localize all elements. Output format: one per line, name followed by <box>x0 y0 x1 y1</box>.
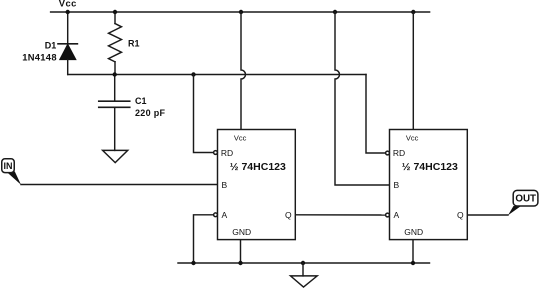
ground rail bottom <box>178 262 430 264</box>
svg-text:Q: Q <box>285 210 292 220</box>
ground (below C1) <box>103 150 128 162</box>
U2 A bubble <box>386 213 390 217</box>
wire U2 GND pin <box>412 240 414 263</box>
svg-text:A: A <box>394 210 400 220</box>
junction RD1 branch node <box>191 72 195 76</box>
input tag IN <box>2 159 21 185</box>
resistor R1 <box>109 12 122 75</box>
svg-text:A: A <box>222 210 228 220</box>
output tag OUT <box>508 190 538 215</box>
svg-text:RD: RD <box>221 148 233 158</box>
capacitor C1 <box>99 75 130 151</box>
wire RC node horizontal <box>68 74 366 76</box>
svg-text:B: B <box>222 180 228 190</box>
op-amp U1 box (74HC123 #1) <box>218 130 296 240</box>
svg-text:R1: R1 <box>128 39 140 49</box>
svg-text:D1: D1 <box>45 41 57 51</box>
svg-text:IN: IN <box>4 161 13 171</box>
svg-text:GND: GND <box>232 227 251 237</box>
wire IN to B1 <box>21 184 218 186</box>
svg-text:Vcc: Vcc <box>59 0 77 9</box>
junction R1/C1 node <box>113 72 117 76</box>
U1 RD bubble <box>214 151 218 155</box>
svg-text:C1: C1 <box>135 96 147 106</box>
wire A1 to ground rail <box>194 215 214 263</box>
junction A1 ground branch <box>191 261 195 265</box>
junction U1 GND on rail <box>238 261 242 265</box>
wire U2 Vcc pin <box>412 12 414 130</box>
wire U1 GND pin <box>240 240 242 263</box>
wire RD1 branch <box>194 75 214 153</box>
junction ground symbol on rail <box>301 261 305 265</box>
ground (bottom rail) <box>291 263 318 287</box>
wire Q1 to A2 <box>295 214 385 216</box>
U2 RD bubble <box>386 151 390 155</box>
U1 A bubble <box>214 213 218 217</box>
power rail Vcc <box>51 11 430 13</box>
wire B2 branch (hop over RC wire) <box>335 12 390 185</box>
junction U1 Vcc on rail <box>239 10 243 14</box>
junction D1 on Vcc rail <box>66 10 70 14</box>
diode D1 <box>58 12 77 75</box>
svg-text:Q: Q <box>457 210 464 220</box>
svg-text:Vcc: Vcc <box>234 134 247 143</box>
svg-text:OUT: OUT <box>515 194 536 205</box>
junction R1 on Vcc rail <box>113 10 117 14</box>
wire U1 Vcc pin (hop over RC wire) <box>241 12 246 130</box>
svg-text:Vcc: Vcc <box>406 134 419 143</box>
junction U2 Vcc on rail <box>411 10 415 14</box>
svg-text:220 pF: 220 pF <box>135 108 166 118</box>
junction U2 GND on rail <box>411 261 415 265</box>
op-amp U2 box (74HC123 #2) <box>390 130 468 240</box>
svg-text:1N4148: 1N4148 <box>22 52 57 63</box>
junction B2 branch on rail <box>333 10 337 14</box>
svg-text:B: B <box>394 180 400 190</box>
wire RD2 branch <box>366 75 386 154</box>
svg-text:RD: RD <box>393 148 405 158</box>
svg-text:½ 74HC123: ½ 74HC123 <box>402 161 458 173</box>
svg-text:GND: GND <box>404 227 423 237</box>
svg-text:½ 74HC123: ½ 74HC123 <box>230 161 286 173</box>
wire Q2 to OUT <box>467 214 508 216</box>
